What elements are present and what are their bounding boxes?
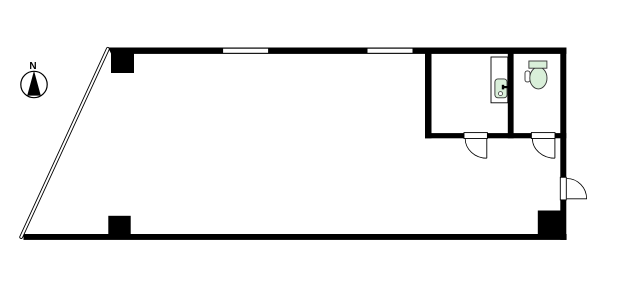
top-left column (111, 48, 134, 73)
door D1 leaf (464, 133, 487, 159)
door D1 swing arc (465, 139, 487, 159)
door D3 (right wall) leaf (560, 177, 566, 200)
door D3 swing arc (567, 179, 587, 199)
left slanted wall (21, 49, 108, 237)
small rooms: divider wall (508, 48, 514, 139)
sink basin (495, 79, 507, 98)
toilet tank (529, 61, 547, 68)
toilet bowl (530, 67, 547, 89)
svg-text:N: N (29, 61, 36, 72)
small rooms bottom wall segment B (487, 133, 531, 138)
small rooms bottom wall segment C (555, 133, 566, 138)
top wall (111, 48, 566, 54)
small rooms: left wall (425, 48, 432, 139)
toilet handle (525, 71, 530, 82)
bottom-right column (538, 211, 562, 236)
window W1 (223, 49, 268, 53)
sink faucet (502, 85, 510, 90)
sink counter (491, 57, 508, 103)
door D2 swing arc (532, 139, 555, 159)
sink drain (499, 92, 503, 96)
bottom wall (24, 234, 567, 240)
door D2 leaf (531, 133, 555, 159)
small rooms bottom wall segment A (425, 133, 465, 138)
north arrow (21, 61, 47, 98)
right wall lower segment (560, 200, 566, 240)
window W2 (368, 49, 413, 53)
top wall left slanted tip (108, 48, 115, 55)
bottom-left column (108, 216, 130, 239)
right wall upper segment (560, 48, 566, 178)
